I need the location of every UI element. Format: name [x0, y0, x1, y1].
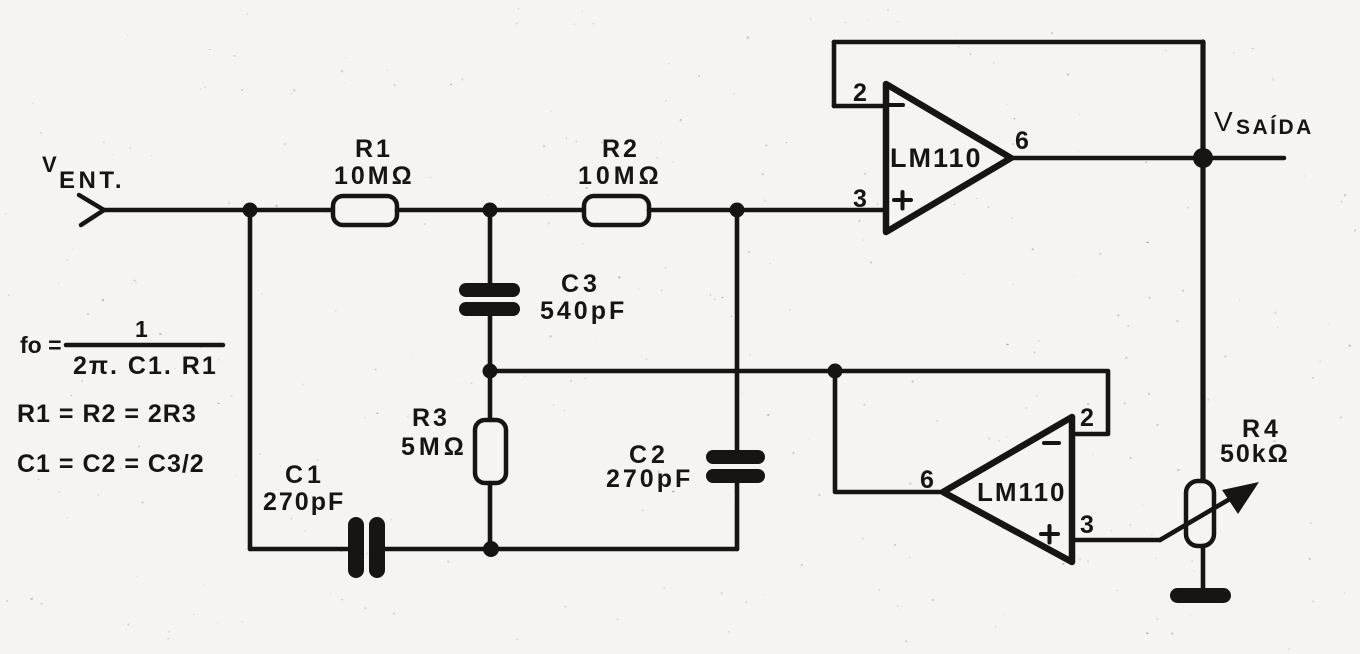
svg-text:R1 = R2 = 2R3: R1 = R2 = 2R3: [17, 400, 197, 428]
node C junction dot: [730, 203, 745, 218]
svg-text:V: V: [1214, 106, 1233, 137]
input chevron V_ENT: [79, 195, 104, 225]
wire: bottom rail left segment to C1: [250, 547, 350, 552]
svg-text:6: 6: [920, 466, 934, 494]
wire: C1 to node E: [384, 547, 491, 552]
capacitor C3 bottom plate: [459, 302, 520, 316]
wire: node F to node G: [490, 369, 835, 374]
capacitor C3 top plate: [459, 283, 520, 297]
wire: input to node A: [104, 208, 250, 213]
svg-text:C3: C3: [561, 270, 601, 298]
capacitor C2 top plate: [706, 450, 765, 464]
svg-text:R4: R4: [1242, 415, 1282, 443]
U1 minus sign: [889, 103, 903, 107]
svg-text:V: V: [42, 152, 57, 177]
wire: feedback riser (U1 pin 2 up): [832, 42, 837, 106]
potentiometer R4 wiper arrow: [1160, 482, 1259, 540]
wire: bottom rail right segment (node E to C2 column): [491, 547, 737, 552]
capacitor C1 left plate: [348, 517, 364, 578]
node D junction dot (output node): [1193, 148, 1213, 168]
svg-text:270pF: 270pF: [606, 465, 693, 493]
node F junction dot: [483, 364, 498, 379]
wire: node G down to U2 output pin 6: [835, 371, 943, 492]
capacitor C2 bottom plate: [706, 469, 765, 483]
wire: C2 column lower: [735, 483, 740, 549]
svg-text:2: 2: [1080, 404, 1094, 432]
op-amp U1 LM110 triangle: [886, 84, 1011, 232]
svg-text:1: 1: [135, 316, 148, 342]
wire: R1 to node B: [397, 208, 490, 213]
wire: U1 pin 2 lead: [834, 104, 886, 109]
svg-text:6: 6: [1015, 127, 1029, 155]
svg-text:3: 3: [853, 185, 867, 213]
wire: U2 pin 3 to R4 wiper: [1072, 538, 1160, 543]
node G junction dot: [828, 364, 843, 379]
svg-text:5MΩ: 5MΩ: [401, 433, 468, 461]
wire: node A down to bottom rail: [248, 210, 253, 549]
svg-text:LM110: LM110: [977, 477, 1067, 507]
svg-text:540pF: 540pF: [540, 297, 627, 325]
U1 plus sign: [894, 192, 911, 209]
svg-text:fo =: fo =: [20, 332, 62, 358]
wire: node G to U2 pin 2 (feedback): [835, 371, 1108, 434]
wire: R2 to node C: [649, 208, 737, 213]
node E junction dot: [483, 541, 499, 557]
wire: node B to R2: [490, 208, 585, 213]
svg-text:LM110: LM110: [890, 143, 983, 173]
wire: node A to R1: [250, 208, 334, 213]
wire: node F down to R3: [488, 371, 493, 421]
formula fo = 1/(2pi.C1.R1): [20, 316, 223, 380]
svg-text:3: 3: [1080, 511, 1094, 539]
svg-text:10MΩ: 10MΩ: [578, 162, 663, 190]
svg-text:SAÍDA: SAÍDA: [1236, 116, 1314, 139]
wire: node B down to C3: [488, 210, 493, 284]
wire: node C down to C2: [735, 210, 740, 450]
U2 minus sign: [1044, 441, 1059, 445]
U2 plus sign: [1041, 526, 1058, 543]
svg-text:R1: R1: [355, 135, 393, 163]
svg-text:C1: C1: [285, 461, 325, 489]
op-amp U2 LM110 triangle (points left): [943, 417, 1072, 562]
node A junction dot: [243, 203, 258, 218]
resistor R3 body: [475, 420, 506, 483]
svg-text:2: 2: [853, 79, 867, 107]
resistor R1 body: [333, 196, 397, 225]
svg-text:270pF: 270pF: [263, 488, 345, 516]
resistor R2 body: [584, 196, 649, 225]
svg-text:10MΩ: 10MΩ: [334, 162, 415, 190]
node B junction dot: [483, 203, 498, 218]
wire: feedback top run: [834, 40, 1203, 45]
svg-text:50kΩ: 50kΩ: [1220, 440, 1290, 468]
svg-text:ENT.: ENT.: [59, 167, 125, 194]
ground symbol: [1170, 588, 1231, 603]
wire: output column down to R4: [1200, 42, 1205, 482]
svg-text:R2: R2: [602, 135, 640, 163]
wire: U1 output to V_SAIDA terminal: [1011, 156, 1284, 161]
svg-text:2π. C1. R1: 2π. C1. R1: [73, 352, 218, 380]
svg-text:R3: R3: [412, 404, 450, 432]
potentiometer R4 body: [1186, 481, 1214, 546]
wire: C3 to node F: [488, 316, 493, 371]
wire: R4 to ground: [1201, 546, 1206, 590]
svg-text:C1 = C2 = C3/2: C1 = C2 = C3/2: [17, 450, 205, 478]
capacitor C1 right plate: [369, 517, 385, 578]
wire: node C to op-amp U1 pin 3: [737, 208, 886, 213]
wire: R3 to node E: [488, 483, 493, 549]
